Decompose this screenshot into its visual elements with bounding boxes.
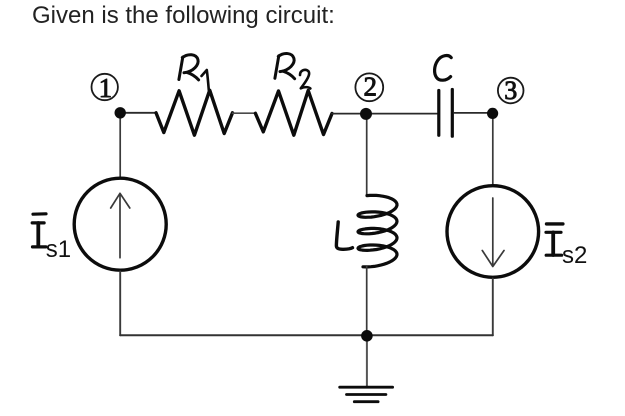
resistor R1: [156, 90, 233, 135]
current source Is1 arrow: [111, 193, 130, 257]
wire: capacitor to node3: [454, 112, 491, 114]
wire: R1 to R2: [233, 112, 256, 114]
wire: R2 to node2: [332, 113, 365, 115]
bottom junction dot: [361, 330, 373, 342]
wire: bottom rail: [120, 334, 493, 336]
ground stem: [366, 336, 368, 387]
label C: [435, 56, 452, 81]
node 1 circle label: [92, 74, 118, 100]
label Is2: [546, 224, 563, 255]
svg-text:1: 1: [99, 73, 113, 103]
node 3 circle label: [498, 78, 524, 104]
svg-text:3: 3: [504, 76, 517, 105]
wire: node1 down to Is1: [119, 114, 121, 177]
svg-text:s2: s2: [562, 242, 587, 269]
wire: Is2 to bottom: [492, 279, 494, 336]
svg-text:2: 2: [363, 72, 377, 102]
capacitor C plates: [437, 91, 440, 136]
wire: node3 down to Is2: [492, 114, 494, 185]
label R2: [275, 54, 295, 79]
wire: Is1 to bottom: [119, 272, 121, 336]
label R1: [179, 55, 199, 80]
label Is1: [32, 214, 46, 247]
current source Is1 circle: [74, 178, 166, 270]
node 3 junction dot: [487, 108, 498, 119]
node 2 circle label: [355, 73, 383, 101]
current source Is2 circle: [447, 186, 539, 278]
wire: inductor to bottom junction: [366, 266, 368, 336]
wire: node2 to capacitor: [368, 113, 437, 115]
node 2 junction dot: [360, 108, 372, 120]
inductor L coil: [358, 195, 397, 267]
wire: node2 down to inductor: [366, 114, 368, 195]
svg-text:s1: s1: [46, 236, 71, 263]
resistor R2: [255, 91, 332, 136]
ground bars: [340, 386, 393, 389]
node 1 junction dot: [115, 107, 126, 118]
label L: [336, 222, 352, 249]
title text: [32, 2, 335, 30]
current source Is2 arrow: [482, 198, 504, 267]
wire: node1 to R1: [121, 112, 156, 114]
